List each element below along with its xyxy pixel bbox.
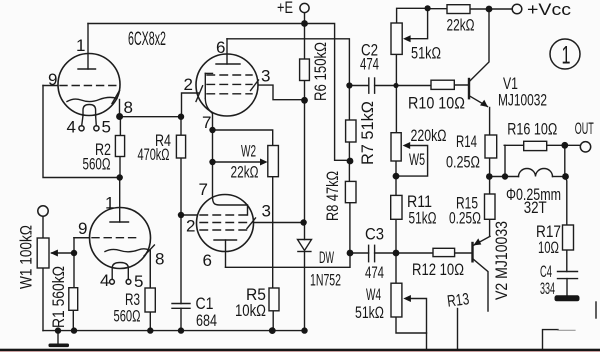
svg-text:2: 2 xyxy=(186,217,195,236)
svg-text:W2: W2 xyxy=(241,143,256,161)
svg-text:1N752: 1N752 xyxy=(310,272,341,290)
svg-text:684: 684 xyxy=(196,312,217,330)
svg-text:W5: W5 xyxy=(409,151,425,169)
svg-text:DW: DW xyxy=(319,249,334,267)
svg-text:474: 474 xyxy=(365,264,384,282)
svg-text:220kΩ: 220kΩ xyxy=(411,127,447,145)
svg-text:7: 7 xyxy=(199,180,208,199)
svg-text:51kΩ: 51kΩ xyxy=(355,304,384,322)
svg-text:3: 3 xyxy=(262,202,271,221)
svg-text:C1: C1 xyxy=(196,295,214,313)
svg-text:7: 7 xyxy=(202,113,211,132)
svg-text:V2 MJ10033: V2 MJ10033 xyxy=(493,221,511,300)
svg-text:22kΩ: 22kΩ xyxy=(231,164,259,182)
svg-text:+Vcc: +Vcc xyxy=(527,1,571,19)
svg-text:8: 8 xyxy=(124,98,133,117)
svg-text:560Ω: 560Ω xyxy=(83,156,111,174)
svg-text:6CX8x2: 6CX8x2 xyxy=(128,29,166,50)
svg-text:R7 51kΩ: R7 51kΩ xyxy=(359,101,377,165)
svg-text:5: 5 xyxy=(102,118,111,137)
svg-text:51kΩ: 51kΩ xyxy=(411,45,441,63)
svg-text:470kΩ: 470kΩ xyxy=(138,146,170,164)
svg-text:C3: C3 xyxy=(365,226,384,244)
svg-text:9: 9 xyxy=(78,219,87,238)
svg-text:R1 560kΩ: R1 560kΩ xyxy=(50,266,68,328)
svg-text:6: 6 xyxy=(216,38,225,57)
svg-text:8: 8 xyxy=(155,250,164,269)
svg-text:1: 1 xyxy=(105,194,114,213)
svg-text:4: 4 xyxy=(67,118,76,137)
svg-text:4: 4 xyxy=(100,271,109,290)
svg-text:R11: R11 xyxy=(407,193,432,211)
svg-text:0.25Ω: 0.25Ω xyxy=(449,210,481,228)
svg-text:W4: W4 xyxy=(366,286,381,304)
svg-text:2: 2 xyxy=(184,75,193,94)
svg-text:R12 10Ω: R12 10Ω xyxy=(412,261,464,279)
svg-text:6: 6 xyxy=(203,251,212,270)
svg-text:R14: R14 xyxy=(456,133,477,151)
svg-text:10Ω: 10Ω xyxy=(538,239,559,257)
svg-text:560Ω: 560Ω xyxy=(114,308,141,326)
svg-text:R13: R13 xyxy=(446,290,470,311)
svg-text:3: 3 xyxy=(261,67,270,86)
svg-text:R16 10Ω: R16 10Ω xyxy=(507,121,557,139)
svg-text:R3: R3 xyxy=(125,291,140,309)
svg-text:V1: V1 xyxy=(503,75,518,93)
svg-text:32T: 32T xyxy=(524,199,547,217)
svg-text:R10 10Ω: R10 10Ω xyxy=(408,95,465,113)
svg-text:5: 5 xyxy=(134,272,143,291)
svg-text:1: 1 xyxy=(76,36,85,55)
svg-text:22kΩ: 22kΩ xyxy=(447,17,475,35)
svg-text:OUT: OUT xyxy=(575,120,594,138)
svg-text:+E: +E xyxy=(277,0,293,17)
svg-text:0.25Ω: 0.25Ω xyxy=(446,154,480,172)
svg-text:R8 47kΩ: R8 47kΩ xyxy=(324,171,342,221)
svg-text:MJ10032: MJ10032 xyxy=(498,92,547,110)
svg-text:474: 474 xyxy=(360,56,379,74)
svg-text:W1 100kΩ: W1 100kΩ xyxy=(18,225,36,289)
svg-text:51kΩ: 51kΩ xyxy=(409,210,437,228)
svg-text:9: 9 xyxy=(48,70,57,89)
svg-text:1: 1 xyxy=(562,42,571,70)
svg-text:R6 150kΩ: R6 150kΩ xyxy=(312,42,330,101)
svg-text:10kΩ: 10kΩ xyxy=(235,302,266,320)
svg-text:334: 334 xyxy=(540,280,555,298)
svg-text:C4: C4 xyxy=(540,263,552,281)
